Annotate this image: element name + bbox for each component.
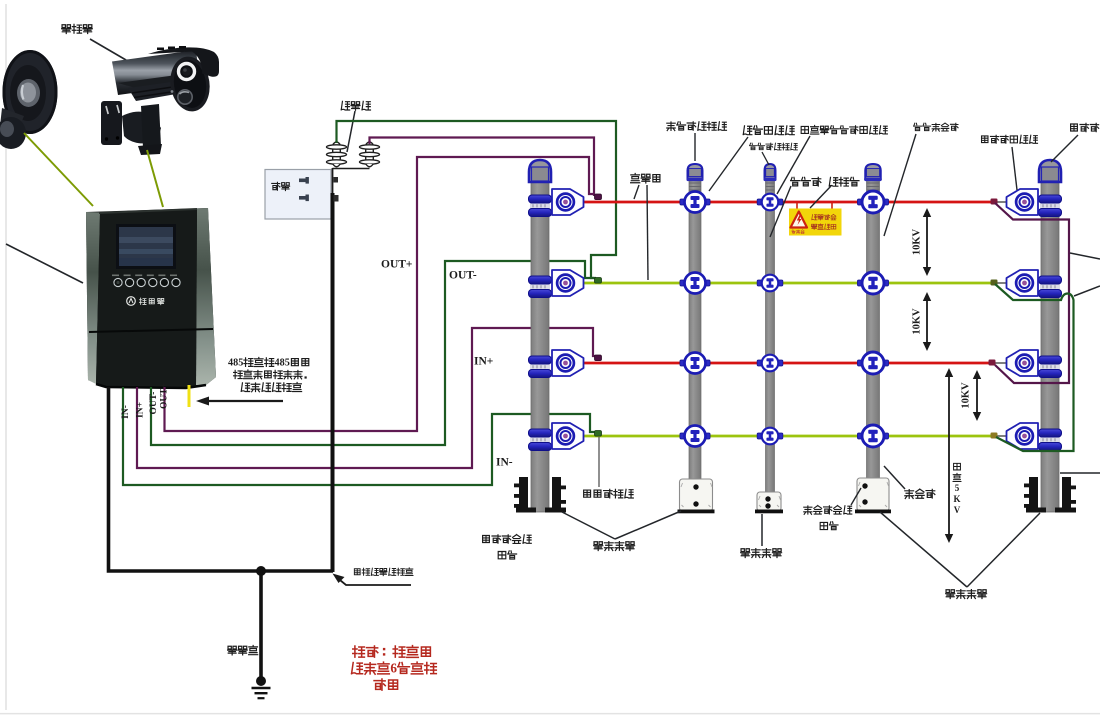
terminal connector row4 right (991, 433, 998, 439)
clamp rings P5 (right terminal) row1 (1039, 195, 1062, 217)
svg-text:5: 5 (955, 483, 960, 493)
wire-to-wire connector row2 left (595, 278, 602, 284)
svg-text:IN-: IN- (496, 457, 513, 469)
label 终端杆绝缘子 (982, 135, 1038, 143)
svg-text:IN-: IN- (121, 405, 131, 419)
label 终端杆固定螺丝 (483, 535, 532, 544)
leader to P3 pole (770, 186, 791, 237)
10KV span arrow rows3-4 (976, 377, 978, 414)
label 警示牌 (829, 177, 859, 186)
tension insulator P1 (left terminal) row3 (552, 350, 584, 376)
svg-text:OUT-: OUT- (149, 392, 159, 415)
svg-text:IN+: IN+ (136, 402, 146, 418)
tension insulator P1 (left terminal) row4 (552, 423, 584, 449)
tension insulator P5 (right terminal) row1 (1007, 189, 1039, 215)
leader to P4 pole (884, 466, 905, 489)
leader line to camera (90, 39, 126, 60)
universal base of P3 (755, 492, 783, 513)
loop jumper row2->row4 (dark green) (995, 284, 1074, 451)
note 备注 (red) (353, 646, 431, 658)
terminal connector row2 right (991, 280, 998, 286)
label 中间承力杆 (914, 123, 959, 131)
svg-text:K: K (953, 494, 960, 504)
label 线线连接器 (584, 489, 634, 498)
label 套环绝缘子 (743, 126, 794, 135)
intermediate post P4 (857, 164, 888, 512)
svg-text:IN+: IN+ (474, 356, 493, 368)
svg-text:10KV: 10KV (961, 382, 972, 409)
wire IN+ (purple) (137, 328, 596, 468)
warning sign hanger wires (796, 203, 798, 209)
wire arrester A2 to fence (purple) (370, 138, 595, 197)
rain cap of P2 (688, 164, 703, 179)
ring insulator P2 row4 (680, 426, 710, 447)
fence wire row4 (alloy, green) (566, 435, 994, 438)
ring insulator P3 row4 (757, 428, 783, 445)
svg-text:10KV: 10KV (912, 228, 923, 255)
label 承力杆固定螺丝 (804, 506, 852, 515)
svg-text:OUT+: OUT+ (160, 383, 170, 409)
wall outlet box 围墙 (265, 170, 331, 220)
tension insulator P5 (right terminal) row2 (1007, 270, 1039, 296)
leader to P3 insulator (777, 136, 810, 194)
horn speaker (0, 50, 58, 149)
universal base of P2 (678, 479, 715, 513)
earth electrode symbol (256, 676, 266, 686)
leader line to arrester (347, 111, 355, 152)
label 承力杆 (905, 489, 935, 498)
lightning arrester A2 (360, 142, 380, 167)
warning sign board 警示牌 (789, 209, 842, 236)
leader to P2 base (615, 511, 681, 539)
label 万向底座 #2 (741, 549, 782, 558)
fixing bracket base of P1 (514, 477, 566, 513)
ring insulator P4 row1 (857, 191, 888, 213)
svg-text:485: 485 (228, 357, 243, 368)
faint left border (5, 4, 7, 710)
wire speaker to controller (24, 133, 93, 206)
rain cap of P5 (right terminal) (1039, 160, 1061, 182)
controller buttons (112, 275, 119, 277)
wire OUT+ (purple) (165, 157, 596, 431)
clamp rings P1 (left terminal) row4 (529, 429, 552, 451)
ring insulator P3 row3 (757, 355, 783, 372)
leader to P5 base (967, 513, 1040, 587)
leader to P4 base (long) (880, 512, 967, 587)
intermediate post P3 (757, 164, 783, 512)
clamp rings P5 (right terminal) row2 (1039, 276, 1062, 298)
controller logo (127, 297, 136, 306)
label 万向底座 #3 (946, 590, 987, 599)
yellow grounding pigtail (188, 385, 191, 407)
terminal connector row3 right (989, 360, 996, 366)
ring insulator P2 row1 (680, 192, 710, 213)
wire-to-wire connector row1 left (595, 194, 602, 200)
wire-to-wire connector row4 left (595, 431, 602, 437)
leader to P1 base (562, 512, 615, 539)
label 摄像头 (camera) (62, 24, 93, 33)
svg-text:V: V (954, 505, 961, 515)
leader line to right edge (upper) (1070, 253, 1100, 259)
note 485接地与485总线 (228, 357, 309, 368)
wire joining arrester bases (333, 168, 370, 170)
mounting bolts on conductor (334, 177, 339, 202)
fence wire row2 (alloy, green) (566, 282, 994, 285)
label 避雷器 (lightning arrester) (341, 101, 370, 110)
wire-to-wire connector row3 left (595, 355, 602, 361)
label 中间杆防雨帽 (749, 143, 797, 150)
ring insulator P3 row2 (757, 275, 783, 292)
ring insulator P4 row3 (857, 352, 888, 374)
leader to P2 insulator (709, 137, 748, 191)
clamp rings P5 (right terminal) row3 (1039, 356, 1062, 378)
clamp rings P1 (left terminal) row1 (529, 195, 552, 217)
ring insulator P2 row2 (680, 273, 710, 294)
label 对地5KV (vertical) (954, 463, 961, 470)
fence wire row3 (alloy, red) (566, 362, 992, 365)
tension insulator P5 (right terminal) row4 (1007, 423, 1039, 449)
label 弱电避雷器接地 with arrow (354, 568, 413, 576)
rain cap of P4 (865, 164, 881, 179)
fence wire row1 (alloy, red) (566, 201, 994, 204)
svg-text:OUT+: OUT+ (381, 259, 412, 271)
clamp rings P1 (left terminal) row3 (529, 356, 552, 378)
label 中间杆 (791, 177, 821, 186)
leader to red wire (634, 185, 639, 199)
energizer controller unit (86, 208, 216, 388)
terminal post P1 (left terminal) (529, 160, 584, 512)
label 螺栓型中间杆绝缘子 (801, 125, 887, 134)
leader line to right edge (middle) (1074, 286, 1100, 296)
ring insulator P4 row2 (857, 272, 888, 294)
tension insulator P1 (left terminal) row1 (552, 189, 584, 215)
leader to P2 cap (694, 133, 696, 161)
label 围墙 (wall) (272, 182, 290, 190)
wire arrester A1 to fence (dark green) (337, 121, 617, 278)
leader to row4 connector (598, 437, 600, 487)
universal base of P4 (855, 478, 891, 513)
bolt symbols in wall box (299, 177, 309, 201)
label 高压地 (228, 646, 258, 655)
label 终端杆 (clipped at edge) (1071, 123, 1100, 132)
bullet camera (101, 46, 219, 155)
leader to green wire (647, 185, 648, 280)
stub links into terminal insulators (right) (994, 201, 1024, 203)
wire IN- (dark green) (123, 387, 595, 485)
loop jumper row1->row3 (purple) (995, 203, 1069, 383)
label 万向底座 #1 (594, 542, 635, 551)
rain cap of P3 (765, 164, 776, 179)
ring insulator P4 row4 (857, 425, 888, 447)
junction dot on ground bus (256, 566, 266, 576)
leader to P4 pole (884, 134, 916, 236)
leader line from left edge to controller (6, 244, 83, 283)
terminal post P5 (right terminal) (1007, 160, 1062, 512)
controller LCD screen (116, 224, 176, 269)
label 承立杆防雨帽 (667, 122, 727, 131)
faint bottom border (0, 713, 1100, 715)
wire OUT- (dark green) (151, 261, 594, 445)
clamp rings P5 (right terminal) row4 (1039, 429, 1062, 451)
leader to P5 insulator (1012, 147, 1017, 190)
leader to P5 cap (1051, 135, 1078, 162)
5KV-to-ground span arrow (948, 375, 950, 536)
fixing bracket base of P5 (1024, 477, 1076, 513)
svg-text:OUT-: OUT- (449, 270, 477, 282)
high-voltage earth conductor (259, 571, 263, 679)
lightning arrester A1 (327, 142, 347, 167)
wall ground conductor (thick) (331, 193, 335, 572)
ring insulator P2 row3 (680, 353, 710, 374)
clamp rings P1 (left terminal) row2 (529, 276, 552, 298)
leader to P3 base (761, 514, 763, 546)
10KV span arrow rows2-3 (926, 299, 928, 344)
tension insulator P1 (left terminal) row2 (552, 270, 584, 296)
leader to P3 cap (762, 152, 769, 165)
ring insulator P3 row1 (757, 194, 783, 211)
ground wire (thick black) from controller (109, 387, 334, 571)
wall ground conductor (thin upper part) (332, 168, 334, 194)
terminal connector row1 right (991, 199, 998, 205)
intermediate post P2 (680, 164, 710, 512)
svg-text:6: 6 (390, 660, 397, 675)
rain cap of P1 (left terminal) (529, 160, 551, 182)
10KV span arrow rows1-2 (926, 215, 928, 269)
label 合金线 (alloy wire) (631, 174, 660, 183)
leader to warning sign (810, 186, 831, 208)
tension insulator P5 (right terminal) row3 (1007, 350, 1039, 376)
arrow pointing to yellow pigtail (206, 400, 283, 402)
svg-text:10KV: 10KV (912, 308, 923, 335)
leader line to right edge (base) (1060, 472, 1100, 474)
wire camera to controller (147, 150, 163, 207)
leader to P4 base (851, 488, 861, 505)
svg-text:485: 485 (275, 357, 290, 368)
